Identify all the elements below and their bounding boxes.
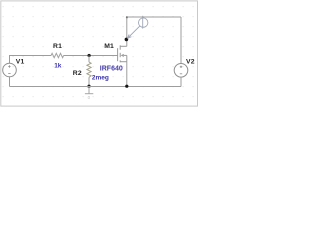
node dot R2 top junction <box>88 54 91 57</box>
voltage source V2 <box>174 64 188 78</box>
svg-text:M1: M1 <box>104 43 114 50</box>
M1 body arrow <box>121 54 124 57</box>
wire V1 top lead to R1 <box>10 56 52 64</box>
wire M1 drain up <box>126 17 128 46</box>
V1 plus mark <box>8 65 10 67</box>
svg-text:R2: R2 <box>73 70 82 77</box>
ground <box>85 87 93 94</box>
wire bottom rail <box>10 86 182 88</box>
wire M1 source down <box>126 62 128 87</box>
wire R2 bottom lead <box>88 77 90 86</box>
wire V2 top lead <box>180 17 182 64</box>
wire R1 to M1 gate <box>64 55 118 57</box>
node dot R2 bottom junction <box>87 85 90 88</box>
current probe <box>127 16 148 39</box>
svg-text:IRF640: IRF640 <box>100 65 123 72</box>
wire R2 top lead <box>88 56 90 63</box>
transistor M1 <box>118 45 127 62</box>
wire V1 bottom lead <box>9 77 11 87</box>
V2 minus mark <box>180 73 182 75</box>
svg-text:R1: R1 <box>53 43 62 50</box>
svg-text:V1: V1 <box>16 58 25 65</box>
V2 plus mark <box>180 66 182 68</box>
node dot M1 source junction <box>125 85 128 88</box>
voltage source V1 <box>3 63 17 77</box>
resistor R1 <box>51 53 64 57</box>
wire top rail <box>127 16 181 18</box>
svg-text:2meg: 2meg <box>92 75 109 82</box>
V1 minus mark <box>8 73 10 75</box>
svg-text:1k: 1k <box>54 63 62 70</box>
node dot probe attachment on drain <box>125 38 129 42</box>
svg-text:V2: V2 <box>186 58 195 65</box>
wire V2 bottom lead <box>180 77 182 86</box>
resistor R2 <box>87 62 91 77</box>
node corner dot drain-top <box>126 16 128 18</box>
